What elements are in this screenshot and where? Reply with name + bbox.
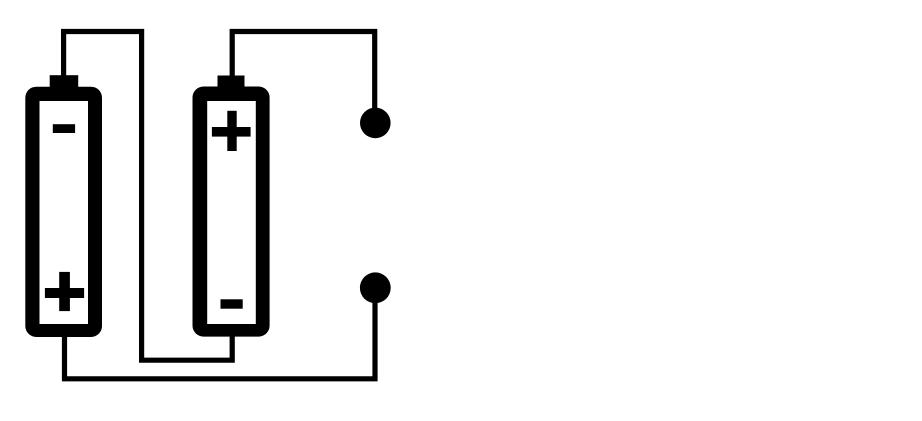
wire: B2 positive (top) terminal up and across to top terminal node (232, 32, 375, 113)
wire: B1 negative (top) terminal up, across, and down to B2 negative (bottom) terminal (64, 32, 233, 361)
B2 top cap nub (218, 76, 245, 90)
B2 body outline (193, 87, 270, 337)
B2 negative polarity mark (221, 299, 243, 308)
B1 body outline (25, 87, 102, 337)
B1 negative polarity mark (53, 124, 75, 133)
wire: bottom terminal node down, across, and up to B1 positive (bottom) terminal (65, 295, 376, 379)
B1 positive polarity mark (45, 288, 84, 298)
node: top circuit terminal (solid dot) (360, 108, 391, 139)
battery B1 (left cell, negative up) (25, 75, 102, 337)
node: bottom circuit terminal (solid dot) (360, 272, 391, 303)
B2 positive polarity mark (212, 127, 251, 137)
B1 top cap nub (50, 75, 78, 89)
battery B2 (right cell, positive up) (193, 76, 270, 337)
